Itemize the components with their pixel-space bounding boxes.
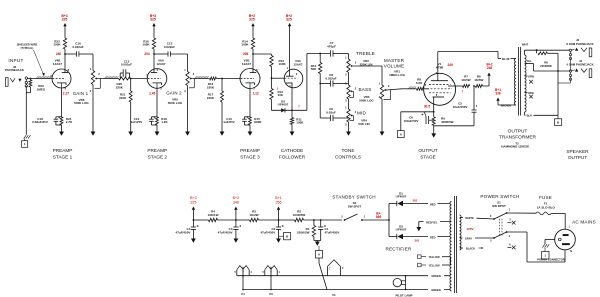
svg-text:8 OHM PHONEJACK: 8 OHM PHONEJACK	[566, 42, 593, 46]
svg-text:240: 240	[56, 52, 62, 56]
svg-text:HAMMOND 125ESE: HAMMOND 125ESE	[501, 145, 529, 149]
svg-text:SW DPST: SW DPST	[492, 204, 506, 208]
svg-text:FOLLOWER: FOLLOWER	[279, 154, 306, 159]
svg-text:0.68uF/25V: 0.68uF/25V	[32, 120, 48, 124]
svg-text:KT88: KT88	[436, 65, 444, 69]
svg-text:12AX7: 12AX7	[53, 62, 63, 66]
svg-text:GAIN 1: GAIN 1	[73, 91, 89, 96]
svg-text:120V: 120V	[466, 227, 473, 231]
svg-text:PREAMP: PREAMP	[240, 148, 260, 153]
svg-text:1uF/25V: 1uF/25V	[223, 120, 235, 124]
svg-text:204: 204	[144, 52, 150, 56]
svg-text:10K: 10K	[278, 93, 284, 97]
svg-text:PREAMP: PREAMP	[53, 148, 73, 153]
svg-text:47uF/450V: 47uF/450V	[218, 231, 233, 235]
svg-text:100K: 100K	[53, 43, 61, 47]
svg-text:(TYPICAL): (TYPICAL)	[21, 46, 34, 50]
svg-text:STAGE 1: STAGE 1	[53, 154, 73, 159]
svg-text:GREEN: GREEN	[431, 274, 440, 278]
svg-text:YEL: YEL	[526, 59, 531, 63]
svg-text:47uF/450V: 47uF/450V	[176, 231, 191, 235]
svg-text:STAGE 3: STAGE 3	[240, 154, 260, 159]
svg-text:220K/2W: 220K/2W	[297, 231, 310, 235]
svg-text:208: 208	[243, 52, 249, 56]
svg-text:50K LIN: 50K LIN	[358, 122, 369, 126]
svg-text:500K LOG: 500K LOG	[74, 101, 89, 105]
svg-text:N: N	[570, 249, 572, 253]
svg-text:1MEG: 1MEG	[37, 87, 46, 91]
svg-text:OUTPUT: OUTPUT	[568, 155, 587, 160]
svg-text:STAGE: STAGE	[420, 154, 436, 159]
svg-text:POWER SWITCH: POWER SWITCH	[480, 194, 519, 199]
svg-text:CATHODE: CATHODE	[281, 148, 304, 153]
svg-text:12AX7: 12AX7	[242, 62, 252, 66]
svg-text:348: 348	[233, 201, 239, 205]
svg-text:5.6K: 5.6K	[416, 81, 423, 85]
svg-text:0.022uF: 0.022uF	[325, 77, 336, 81]
svg-text:TREBLE: TREBLE	[356, 51, 375, 56]
svg-text:MASTER: MASTER	[384, 58, 405, 63]
svg-text:100K: 100K	[296, 121, 304, 125]
svg-text:WHT: WHT	[522, 43, 529, 47]
svg-text:201: 201	[414, 238, 419, 242]
svg-text:GAIN 2: GAIN 2	[166, 90, 182, 95]
svg-text:OUTPUT: OUTPUT	[508, 129, 528, 135]
svg-text:RED: RED	[430, 202, 436, 206]
svg-text:POWER CONNECTOR: POWER CONNECTOR	[537, 258, 564, 262]
svg-text:TRANSFORMER: TRANSFORMER	[499, 134, 537, 140]
svg-text:BLACK: BLACK	[466, 246, 475, 250]
svg-text:INPUT: INPUT	[8, 58, 23, 63]
svg-text:AC MAINS: AC MAINS	[572, 220, 596, 225]
svg-text:470pF: 470pF	[327, 45, 336, 49]
svg-text:10K/1W: 10K/1W	[208, 213, 219, 217]
svg-text:248: 248	[487, 66, 493, 70]
svg-text:PREAMP: PREAMP	[147, 148, 167, 153]
svg-text:325: 325	[286, 18, 292, 22]
svg-text:1MEG LOG: 1MEG LOG	[389, 73, 406, 77]
svg-text:OUTPUT: OUTPUT	[418, 148, 437, 153]
svg-text:SPEAKER: SPEAKER	[566, 149, 589, 154]
svg-text:1.45: 1.45	[149, 91, 155, 95]
svg-text:RECTIFIER: RECTIFIER	[385, 246, 412, 251]
svg-text:STANDBY SWITCH: STANDBY SWITCH	[332, 195, 375, 200]
svg-text:1K/5W: 1K/5W	[461, 78, 470, 82]
svg-text:100K: 100K	[241, 43, 249, 47]
svg-text:BASS: BASS	[358, 87, 371, 92]
svg-text:BLUE: BLUE	[502, 57, 510, 61]
svg-text:325: 325	[190, 201, 196, 205]
svg-text:336: 336	[495, 92, 501, 96]
svg-text:10uF/450V: 10uF/450V	[453, 105, 468, 109]
svg-text:0.022uF: 0.022uF	[72, 45, 83, 49]
svg-text:820R: 820R	[254, 120, 262, 124]
svg-text:356: 356	[276, 201, 282, 205]
svg-text:0.001uF: 0.001uF	[121, 63, 132, 67]
svg-text:1.2K: 1.2K	[161, 120, 168, 124]
svg-text:SW SPST: SW SPST	[348, 204, 362, 208]
svg-text:2.27: 2.27	[63, 91, 69, 95]
svg-text:MID: MID	[357, 111, 367, 116]
svg-text:BLK: BLK	[527, 114, 532, 118]
svg-text:47uF/450V: 47uF/450V	[325, 231, 340, 235]
svg-text:PILOT LAMP: PILOT LAMP	[396, 293, 413, 297]
svg-text:100K: 100K	[279, 62, 287, 66]
svg-text:2.7K: 2.7K	[66, 120, 73, 124]
svg-text:1K/5W: 1K/5W	[474, 78, 483, 82]
svg-text:TONE: TONE	[342, 148, 355, 153]
svg-text:RED/YEL: RED/YEL	[426, 220, 438, 224]
svg-text:56K: 56K	[311, 67, 317, 71]
svg-text:400R/5W: 400R/5W	[441, 120, 454, 124]
svg-text:V4: V4	[241, 292, 245, 296]
svg-text:100uF/50V: 100uF/50V	[404, 119, 419, 123]
svg-text:100R/5W: 100R/5W	[293, 213, 306, 217]
svg-text:325: 325	[150, 18, 156, 22]
svg-text:325: 325	[62, 18, 68, 22]
svg-text:SHIELDED WIRE: SHIELDED WIRE	[17, 42, 38, 46]
svg-text:UF4007: UF4007	[396, 228, 407, 232]
svg-text:UF4007: UF4007	[278, 103, 289, 107]
svg-text:220K: 220K	[119, 96, 127, 100]
svg-text:YELLOW: YELLOW	[428, 255, 440, 259]
svg-text:BROWN: BROWN	[501, 103, 511, 107]
svg-text:500K LOG: 500K LOG	[359, 99, 374, 103]
svg-text:30.5: 30.5	[424, 104, 430, 108]
svg-text:325: 325	[249, 18, 255, 22]
svg-text:VOLUME: VOLUME	[384, 63, 405, 68]
svg-text:B+2: B+2	[233, 196, 240, 200]
svg-text:STAGE 2: STAGE 2	[148, 154, 168, 159]
svg-text:V1: V1	[332, 293, 336, 297]
svg-text:220K: 220K	[207, 96, 215, 100]
svg-text:GRN: GRN	[528, 75, 534, 79]
svg-text:1uF/25V: 1uF/25V	[131, 120, 143, 124]
svg-text:0.022uF: 0.022uF	[164, 45, 175, 49]
svg-text:0.02uF: 0.02uF	[326, 111, 336, 115]
svg-text:UF4007: UF4007	[396, 195, 407, 199]
svg-text:249: 249	[448, 63, 454, 67]
svg-text:V3: V3	[269, 292, 273, 296]
svg-text:ORG: ORG	[528, 91, 534, 95]
svg-text:1K/2W: 1K/2W	[249, 213, 258, 217]
svg-text:201: 201	[412, 199, 417, 203]
svg-text:220K: 220K	[207, 86, 215, 90]
svg-text:12AX7: 12AX7	[156, 62, 166, 66]
svg-text:PHONEJACK: PHONEJACK	[5, 68, 25, 72]
svg-text:12AX7: 12AX7	[293, 62, 303, 66]
svg-text:220K: 220K	[116, 86, 124, 90]
svg-text:220R/5W: 220R/5W	[540, 64, 552, 68]
svg-text:100K: 100K	[142, 43, 150, 47]
svg-text:WHITE: WHITE	[465, 216, 474, 220]
svg-text:CONTROLS: CONTROLS	[335, 154, 361, 159]
svg-text:GREEN: GREEN	[431, 288, 440, 292]
svg-text:366: 366	[376, 215, 382, 219]
svg-text:B+1: B+1	[275, 196, 282, 200]
svg-text:1.12: 1.12	[253, 91, 259, 95]
svg-text:GRAY: GRAY	[465, 236, 473, 240]
svg-text:FUSE: FUSE	[539, 195, 552, 200]
svg-text:YELLOW: YELLOW	[428, 263, 440, 267]
svg-text:RED: RED	[430, 235, 436, 239]
svg-text:47uF/450V: 47uF/450V	[260, 231, 275, 235]
svg-text:B+3: B+3	[190, 196, 197, 200]
svg-text:1A SLO-BLO: 1A SLO-BLO	[537, 205, 556, 209]
svg-text:500K LOG: 500K LOG	[168, 101, 183, 105]
